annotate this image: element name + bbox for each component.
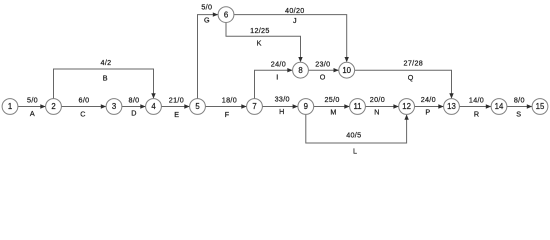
svg-text:25/0: 25/0	[324, 95, 339, 104]
svg-text:G: G	[204, 16, 210, 25]
svg-text:15: 15	[536, 102, 545, 111]
svg-text:N: N	[374, 108, 379, 117]
node 5	[190, 99, 206, 115]
svg-text:S: S	[516, 109, 521, 118]
svg-text:B: B	[103, 73, 108, 82]
activity-on-arrow project network diagram	[0, 0, 550, 159]
wire activity G: node 5 up to node 6	[198, 3, 219, 99]
wire activity J: node 6 over to node 10	[234, 6, 349, 62]
node 8	[293, 62, 309, 78]
svg-text:24/0: 24/0	[421, 95, 436, 104]
wire activity S: node 14 to node 15	[507, 95, 532, 118]
node 9	[298, 99, 314, 115]
svg-text:8/0: 8/0	[129, 95, 140, 104]
wire activity A: node 1 to node 2	[18, 95, 46, 118]
node 7	[247, 99, 263, 115]
wire activity D: node 3 to node 4	[122, 95, 146, 117]
svg-text:21/0: 21/0	[169, 95, 184, 104]
svg-text:R: R	[474, 109, 479, 118]
node 12	[399, 99, 415, 115]
svg-text:11: 11	[353, 102, 361, 111]
wire activity P: node 12 to node 13	[415, 95, 444, 117]
svg-text:8: 8	[298, 66, 302, 75]
svg-text:40/5: 40/5	[346, 130, 361, 139]
wire activity N: node 11 to node 12	[365, 95, 398, 117]
svg-text:14/0: 14/0	[469, 95, 484, 104]
wire activity B: node 2 up and over to node 4	[54, 58, 156, 99]
svg-text:18/0: 18/0	[222, 95, 237, 104]
svg-text:Q: Q	[408, 73, 414, 82]
svg-text:M: M	[330, 108, 336, 117]
node 3	[106, 99, 122, 115]
svg-text:A: A	[30, 109, 35, 118]
wire activity E: node 4 to node 5	[161, 95, 189, 119]
wire activity C: node 2 to node 3	[61, 95, 106, 118]
svg-text:12: 12	[402, 102, 411, 111]
svg-text:4: 4	[151, 102, 156, 111]
svg-text:O: O	[320, 73, 326, 82]
svg-text:33/0: 33/0	[275, 95, 290, 104]
svg-text:12/25: 12/25	[250, 26, 270, 35]
wire activity I: node 7 up to node 8	[255, 59, 293, 98]
svg-text:J: J	[293, 16, 297, 25]
node 14	[491, 99, 507, 115]
svg-text:2: 2	[51, 102, 55, 111]
svg-text:5/0: 5/0	[201, 3, 212, 12]
svg-text:P: P	[425, 108, 430, 117]
svg-text:H: H	[279, 107, 284, 116]
wire activity R: node 13 to node 14	[459, 95, 491, 118]
svg-text:13: 13	[447, 102, 456, 111]
node 11	[350, 99, 366, 115]
node 6	[218, 7, 234, 23]
node 13	[444, 99, 460, 115]
svg-text:40/20: 40/20	[285, 6, 305, 15]
svg-text:5: 5	[195, 102, 200, 111]
wire activity O: node 8 to node 10	[308, 59, 338, 81]
wire activity Q: node 10 over to node 13	[355, 58, 454, 98]
wire activity K: node 6 down and over to node 8	[226, 23, 303, 63]
node 4	[146, 99, 162, 115]
svg-text:20/0: 20/0	[370, 95, 385, 104]
node 2	[46, 99, 62, 115]
svg-text:23/0: 23/0	[315, 59, 330, 68]
svg-text:1: 1	[8, 102, 12, 111]
node 1	[2, 99, 18, 115]
svg-text:K: K	[257, 39, 262, 48]
svg-text:3: 3	[112, 102, 116, 111]
svg-text:5/0: 5/0	[27, 95, 38, 104]
svg-text:4/2: 4/2	[101, 58, 112, 67]
svg-text:I: I	[276, 73, 278, 82]
svg-text:10: 10	[342, 66, 351, 75]
svg-text:7: 7	[252, 102, 256, 111]
svg-text:C: C	[80, 110, 85, 119]
wire activity H: node 7 to node 9	[262, 95, 298, 116]
node 15	[532, 99, 548, 115]
svg-text:24/0: 24/0	[271, 59, 286, 68]
svg-text:D: D	[131, 109, 136, 118]
svg-text:27/28: 27/28	[404, 58, 424, 67]
svg-text:8/0: 8/0	[514, 95, 525, 104]
wire activity F: node 5 to node 7	[205, 95, 246, 119]
svg-text:E: E	[174, 110, 179, 119]
svg-text:14: 14	[495, 102, 504, 111]
wire activity L: node 9 down and over to node 12	[306, 114, 409, 155]
svg-text:F: F	[225, 110, 230, 119]
wire activity M: node 9 to node 11	[314, 95, 350, 117]
svg-text:6/0: 6/0	[79, 95, 90, 104]
svg-text:6: 6	[224, 10, 228, 19]
svg-text:L: L	[353, 147, 357, 156]
svg-text:9: 9	[304, 102, 308, 111]
node 10	[339, 62, 355, 78]
